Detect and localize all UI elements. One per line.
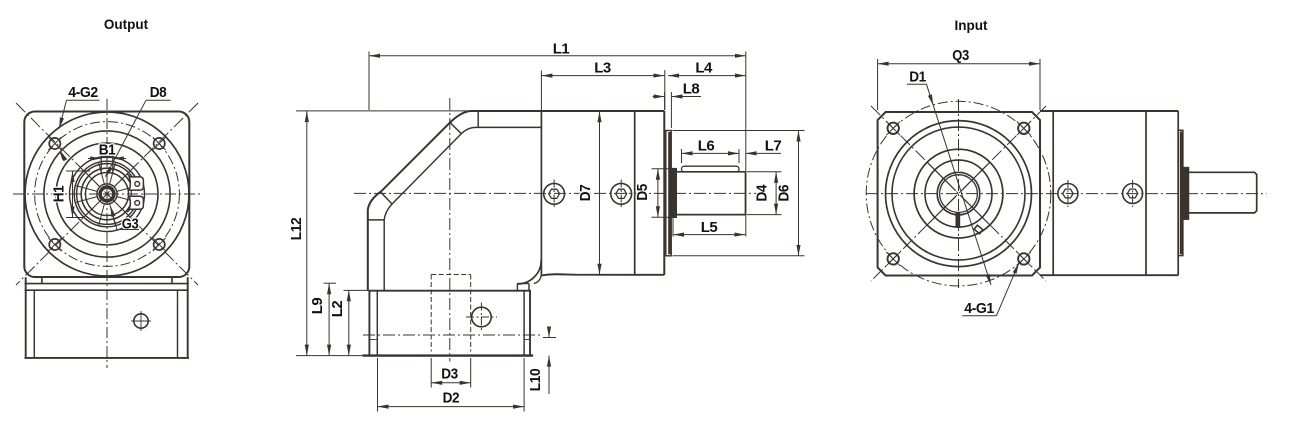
body right face (663, 111, 665, 275)
square flange outline (24, 112, 189, 278)
diagonal centerline TR-BL (16, 103, 198, 285)
horizontal centerline (13, 193, 201, 195)
circle d67 (925, 160, 992, 227)
vertical axis (958, 99, 960, 288)
svg-text:L5: L5 (701, 219, 718, 236)
flange circle d51 (56, 143, 158, 245)
clamp ear tabs (130, 190, 143, 196)
lower box outline (25, 277, 190, 358)
svg-text:L4: L4 (695, 59, 713, 76)
face screw centerline ticks (554, 180, 621, 209)
svg-text:D5: D5 (634, 184, 651, 201)
body bottom edge (541, 274, 664, 275)
bolt hole top-left (49, 138, 165, 250)
bolt hole ticks (886, 121, 1031, 266)
svg-text:L7: L7 (765, 138, 782, 155)
svg-text:L8: L8 (683, 81, 700, 98)
svg-text:4-G1: 4-G1 (964, 300, 994, 317)
shaft circle d10 (97, 184, 117, 204)
face screw right (611, 183, 632, 204)
housing inner offset line (368, 220, 384, 291)
shaft bore hatched (100, 187, 114, 201)
box screw (472, 307, 492, 327)
svg-text:4-G2: 4-G2 (68, 84, 98, 101)
radial 45 deg lines (927, 162, 990, 225)
keyway slot B1 (101, 154, 113, 174)
box horizontal centerline (363, 334, 540, 336)
circle d89 (914, 149, 1003, 238)
input view dimensions (878, 47, 1040, 317)
box screw cross (466, 303, 497, 332)
svg-text:D8: D8 (150, 84, 167, 101)
svg-text:L9: L9 (309, 298, 326, 315)
leader arrowheads left view (59, 117, 115, 217)
bolt holes (888, 123, 1030, 265)
svg-text:L6: L6 (698, 138, 715, 155)
side body section lines (1053, 111, 1178, 275)
lower box outline (369, 291, 530, 356)
svg-text:L12: L12 (288, 218, 305, 241)
right foot under fillet (517, 284, 529, 291)
hub circle d32.8 (74, 161, 140, 227)
box screw cross (131, 311, 151, 331)
svg-text:Output: Output (104, 17, 149, 32)
center lines left view (13, 99, 201, 368)
svg-text:D2: D2 (443, 390, 460, 407)
side body top/bottom (1040, 111, 1178, 275)
flange circle outer (25, 112, 189, 276)
svg-text:D3: D3 (441, 366, 458, 383)
input thin plate (1178, 130, 1183, 255)
svg-text:D6: D6 (776, 185, 793, 202)
keyway slot (956, 213, 960, 228)
svg-text:L1: L1 (553, 41, 570, 58)
vertical centerline (106, 99, 108, 368)
svg-text:Input: Input (955, 18, 988, 33)
ear hole upper (135, 182, 140, 187)
svg-text:L3: L3 (594, 59, 611, 76)
middle view dimensions (288, 41, 805, 412)
hub circle d30.4 (77, 164, 138, 225)
bore outer (937, 172, 980, 215)
ear hole lower (135, 201, 140, 206)
face screw left hex (549, 189, 560, 198)
transition band below flange (25, 277, 189, 290)
chamfer corner tick top (449, 122, 461, 134)
face screw left (544, 183, 565, 204)
diagonal TL-BR (871, 106, 1046, 281)
bolt circle (35, 122, 180, 267)
bore inner (940, 175, 978, 213)
key on shaft (682, 166, 740, 172)
flange circle d63 (44, 131, 170, 257)
diagonal TR-BL (871, 106, 1046, 281)
radial slit lines (75, 162, 138, 225)
L-housing outer contour (368, 111, 665, 291)
thin plate L8 (666, 131, 671, 256)
face screw right hex (616, 189, 627, 198)
bolt circle (866, 101, 1051, 286)
input leader arrowheads (928, 94, 1019, 285)
flange circle d146 (886, 121, 1032, 267)
inner corner fillet (517, 260, 541, 284)
box inner verticals (377, 291, 524, 356)
box step ticks (369, 339, 530, 341)
svg-text:L10: L10 (527, 369, 544, 392)
svg-text:L2: L2 (329, 301, 346, 318)
square flange with chamfered corners (878, 112, 1040, 276)
svg-text:H1: H1 (51, 186, 68, 203)
notch marker (974, 225, 983, 234)
collar circle d21.5 (86, 173, 129, 216)
chamfer end tick bottom (381, 192, 392, 204)
collar circle d25.8 (81, 168, 133, 220)
svg-text:B1: B1 (99, 142, 116, 159)
input view centerlines (866, 99, 1267, 288)
middle view center/hidden lines (354, 98, 758, 362)
boss D5 (671, 169, 676, 218)
bolt hole cross ticks (48, 137, 165, 251)
svg-text:D1: D1 (909, 69, 926, 86)
side screw hex sockets (1063, 189, 1073, 198)
side screws (1058, 184, 1078, 204)
ear centerline dash (144, 193, 152, 195)
chamfer end tick top (477, 111, 479, 127)
svg-text:D7: D7 (577, 185, 594, 202)
left view dimensions (51, 84, 171, 233)
flange circle d133 (892, 127, 1025, 260)
body front face line (540, 111, 542, 275)
foot corner arc (534, 275, 542, 283)
horizontal axis full (866, 193, 1267, 195)
input boss (1183, 168, 1189, 220)
svg-text:Q3: Q3 (952, 47, 969, 64)
vertical axis of input leg (449, 98, 451, 362)
box bottom thick edge (363, 354, 534, 356)
diagonal centerline TL-BR (16, 103, 198, 285)
svg-text:D4: D4 (754, 184, 771, 202)
box screw hole (134, 314, 148, 328)
hidden bore D3 (431, 275, 471, 352)
horizontal axis (354, 192, 758, 194)
side screw tick lines (1068, 180, 1133, 207)
hub circle d37 (70, 157, 145, 232)
body surface line (634, 111, 636, 275)
input shaft (1189, 172, 1257, 213)
output shaft (676, 172, 745, 215)
